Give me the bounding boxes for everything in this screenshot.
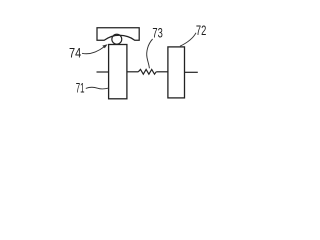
leader line for 71	[86, 87, 109, 89]
svg-text:73: 73	[152, 26, 162, 41]
wire: left stub rod	[97, 71, 109, 73]
bearing block (top cap over roller)	[97, 28, 139, 41]
spring 73 (zigzag)	[138, 69, 156, 74]
wire: right stub rod	[185, 71, 198, 73]
roller 74 (circle)	[112, 34, 122, 44]
wire: rod from spring to block 72	[156, 71, 168, 73]
leader line for 72	[180, 33, 196, 46]
mass block 71 (left vertical rectangle)	[109, 45, 127, 99]
leader line for 74 with arrowhead	[82, 47, 104, 54]
mass block 72 (right vertical rectangle)	[168, 47, 185, 98]
svg-text:71: 71	[76, 81, 85, 96]
wire: rod from block 71 to spring	[127, 71, 138, 73]
svg-text:72: 72	[196, 23, 206, 38]
svg-text:74: 74	[69, 46, 82, 61]
leader line for 73	[147, 39, 153, 68]
